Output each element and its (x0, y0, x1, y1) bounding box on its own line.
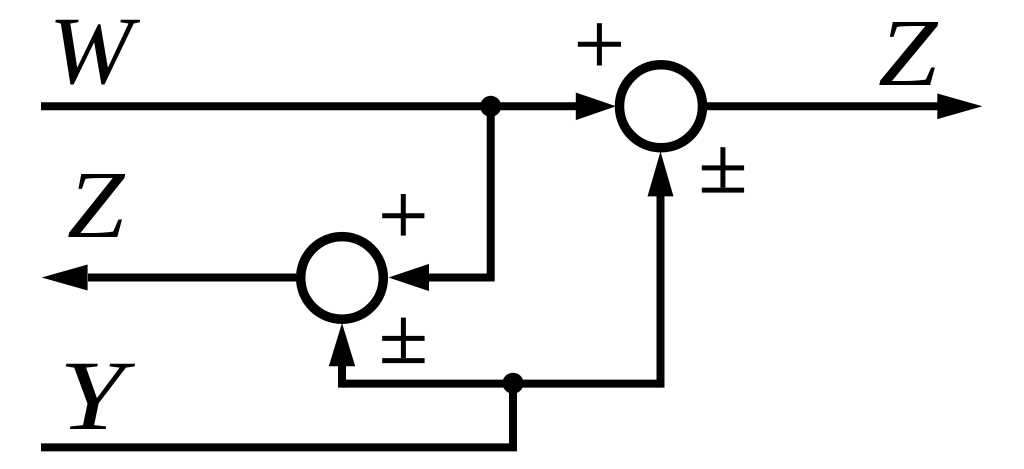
arrowhead of middle Z output (pointing left) (42, 265, 88, 291)
junction dot on W line (480, 96, 501, 117)
svg-text:Y: Y (59, 340, 136, 450)
wire riser into S2 bottom (338, 360, 346, 388)
arrowhead into summer S1 bottom (pointing up) (648, 152, 674, 197)
plus sign at summer S2 (382, 194, 424, 236)
summer S1 circle (620, 65, 703, 148)
arrowhead into summer S1 left input (576, 93, 616, 121)
wire riser from Y line to feedback junction (509, 384, 517, 448)
svg-text:Z: Z (878, 0, 939, 106)
arrowhead of Z output (pointing right) (937, 94, 982, 120)
wire riser into S1 bottom (657, 190, 665, 388)
plus-minus sign at summer S1 (702, 147, 744, 190)
wire W input line (41, 102, 578, 110)
wire from W junction down then left into summer S2 right input (428, 106, 491, 277)
svg-text:Z: Z (67, 151, 126, 258)
arrowhead into summer S2 bottom (pointing up) (329, 323, 355, 366)
wire S1 output line to Z (707, 102, 940, 110)
plus sign at summer S1 (578, 23, 621, 65)
svg-text:W: W (49, 0, 141, 104)
junction dot on feedback wire (503, 373, 524, 394)
wire Y input line (41, 443, 517, 451)
wire feedback middle horizontal with risers to both summers (342, 380, 661, 388)
arrowhead into summer S2 right input (pointing left) (389, 264, 430, 291)
plus-minus sign at summer S2 (382, 318, 424, 361)
wire S2 output line to Z (middle row) (88, 274, 296, 282)
summer S2 circle (301, 237, 384, 320)
